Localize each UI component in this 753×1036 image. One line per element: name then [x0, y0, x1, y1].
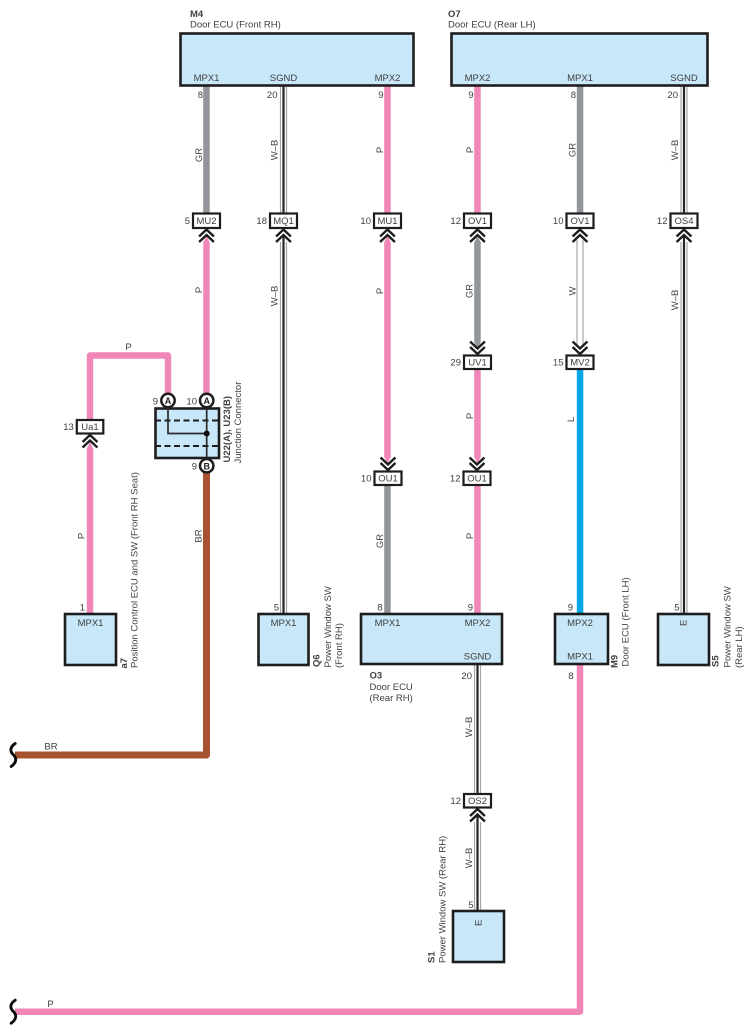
svg-text:W–B: W–B [670, 140, 681, 161]
svg-text:9: 9 [153, 396, 158, 407]
connector OV1 pin 10 [553, 214, 594, 229]
svg-text:O3: O3 [370, 671, 383, 682]
connector OU1 pin 12 [450, 472, 491, 486]
svg-text:P: P [194, 287, 205, 293]
svg-text:W–B: W–B [270, 140, 281, 161]
component Q6 Power Window SW (Front RH) [259, 614, 309, 665]
svg-text:13: 13 [63, 422, 74, 433]
wire-break squiggle (BR, left edge) [11, 744, 16, 767]
connector OV1 pin 12 [450, 214, 491, 229]
svg-text:(Rear LH): (Rear LH) [734, 626, 745, 668]
component S5 Power Window SW (Rear LH) [658, 614, 709, 665]
svg-text:9: 9 [192, 462, 197, 473]
svg-text:(Rear RH): (Rear RH) [370, 693, 413, 704]
svg-text:9: 9 [468, 90, 473, 101]
svg-text:UV1: UV1 [468, 358, 486, 369]
wire W-B: O3 SGND pin 20 to connector OS2 [474, 665, 481, 796]
svg-text:E: E [474, 920, 485, 926]
junction connector pin 9(A) terminal [161, 394, 174, 407]
svg-text:O7: O7 [448, 9, 461, 20]
component M9 Door ECU (Front LH) [555, 614, 608, 664]
svg-text:5: 5 [274, 603, 279, 614]
svg-text:P: P [375, 288, 386, 294]
svg-text:MQ1: MQ1 [273, 216, 294, 227]
svg-text:B: B [203, 461, 210, 471]
svg-text:W–B: W–B [670, 290, 681, 311]
component a7 Position Control ECU and SW (Front RH Seat) [65, 614, 116, 665]
svg-text:8: 8 [198, 90, 203, 101]
O3 designation and name [370, 671, 413, 705]
svg-text:MPX1: MPX1 [78, 618, 104, 629]
svg-text:Junction Connector: Junction Connector [233, 382, 244, 464]
wire P: M4 MPX2 pin 9 to connector MU1 [384, 86, 391, 215]
svg-text:P: P [465, 533, 476, 539]
component O3 Door ECU (Rear RH) [361, 614, 502, 664]
connector OS2 pin 12 [450, 794, 491, 808]
wire GR: OV1 to connector UV1 pin 29 [474, 236, 481, 349]
svg-text:9: 9 [378, 90, 383, 101]
svg-text:1: 1 [80, 603, 85, 614]
connector MU1 pin 10 [360, 214, 401, 229]
svg-text:GR: GR [465, 284, 476, 298]
svg-text:12: 12 [450, 796, 461, 807]
svg-text:Power Window SW: Power Window SW [323, 586, 334, 667]
svg-text:MPX2: MPX2 [567, 618, 593, 629]
svg-text:8: 8 [568, 671, 573, 682]
wire P: O7 MPX2 pin 9 to connector OV1 [474, 86, 481, 215]
svg-text:GR: GR [194, 148, 205, 162]
svg-text:10: 10 [186, 396, 197, 407]
connector OS4 pin 12 [657, 214, 698, 229]
svg-text:U22(A), U23(B): U22(A), U23(B) [222, 396, 233, 463]
svg-text:12: 12 [450, 216, 461, 227]
svg-text:8: 8 [377, 603, 382, 614]
svg-text:OU1: OU1 [467, 474, 487, 485]
svg-text:OV1: OV1 [468, 216, 487, 227]
wire P: MU1 to connector OU1 pin 10 [384, 236, 391, 464]
wire W-B: OS4 to S5 pin 5 [680, 236, 687, 615]
svg-text:Q6: Q6 [312, 654, 323, 667]
svg-text:Door ECU (Front LH): Door ECU (Front LH) [621, 577, 632, 666]
svg-text:Door ECU (Rear LH): Door ECU (Rear LH) [448, 20, 536, 31]
svg-text:Ua1: Ua1 [81, 422, 98, 433]
svg-text:A: A [165, 396, 172, 406]
svg-text:P: P [47, 999, 53, 1010]
svg-text:W–B: W–B [270, 286, 281, 307]
svg-text:MV2: MV2 [570, 358, 590, 369]
connector OU1 pin 10 [361, 472, 402, 486]
svg-text:Door ECU: Door ECU [370, 682, 413, 693]
wire P: M9 MPX1 pin 8 down and left to page edge [15, 664, 580, 1012]
wire W-B: OS2 to S1 pin 5 [474, 816, 481, 912]
svg-text:M4: M4 [190, 9, 204, 20]
svg-text:MPX1: MPX1 [375, 618, 401, 629]
svg-text:MPX1: MPX1 [194, 73, 220, 84]
svg-text:18: 18 [256, 216, 267, 227]
svg-text:20: 20 [667, 90, 678, 101]
svg-text:M9: M9 [610, 655, 621, 668]
svg-text:S5: S5 [711, 655, 722, 667]
junction connector pin 9(B) terminal [200, 459, 213, 472]
svg-text:29: 29 [450, 358, 461, 369]
svg-text:P: P [465, 413, 476, 419]
wire P: MU2 to junction connector pin 10(A) [203, 236, 210, 395]
svg-text:MPX1: MPX1 [567, 73, 593, 84]
svg-text:BR: BR [44, 742, 57, 753]
wire GR: O7 MPX1 pin 8 to connector OV1 [577, 86, 584, 215]
svg-text:5: 5 [674, 603, 679, 614]
svg-text:Door ECU (Front RH): Door ECU (Front RH) [190, 20, 281, 31]
connector MQ1 pin 18 [256, 214, 297, 229]
svg-text:P: P [375, 147, 386, 153]
svg-text:MPX2: MPX2 [465, 618, 491, 629]
wire P: OU1 to O3 MPX2 pin 9 [474, 486, 481, 615]
svg-text:SGND: SGND [270, 73, 298, 84]
svg-text:L: L [566, 417, 577, 422]
ECU O7 Door ECU (Rear LH) [448, 9, 708, 86]
wire W-B: O7 SGND pin 20 to connector OS4 [680, 86, 687, 215]
svg-text:5: 5 [185, 216, 190, 227]
svg-text:Power Window SW (Rear RH): Power Window SW (Rear RH) [438, 836, 449, 963]
connector MU2 pin 5 [185, 214, 220, 229]
svg-text:10: 10 [553, 216, 564, 227]
svg-text:GR: GR [568, 143, 579, 157]
svg-text:10: 10 [361, 474, 372, 485]
wire P: Ua1 to a7 MPX1 pin 1 [87, 442, 94, 614]
wire P: UV1 to connector OU1 pin 12 [474, 369, 481, 464]
svg-text:OU1: OU1 [378, 474, 398, 485]
svg-text:P: P [125, 342, 131, 353]
svg-text:W–B: W–B [464, 848, 475, 869]
svg-text:20: 20 [461, 671, 472, 682]
component S1 Power Window SW (Rear RH) [453, 911, 504, 962]
junction connector dashed bus lines [155, 421, 219, 447]
wire BR: junction pin 9(B) down and left to page edge [15, 470, 207, 755]
svg-text:Position Control ECU and SW (F: Position Control ECU and SW (Front RH Se… [130, 472, 141, 668]
svg-text:15: 15 [553, 358, 564, 369]
wire W-B: M4 SGND pin 20 to connector MQ1 [280, 86, 287, 215]
svg-text:MPX1: MPX1 [567, 652, 593, 663]
wire L: MV2 to M9 MPX2 pin 9 [577, 369, 584, 614]
svg-text:E: E [679, 620, 690, 626]
svg-text:P: P [77, 533, 88, 539]
svg-text:5: 5 [468, 900, 473, 911]
junction connector internal link wire [168, 406, 207, 461]
svg-text:A: A [203, 396, 210, 406]
ECU M4 Door ECU (Front RH) [181, 9, 414, 86]
svg-text:(Front RH): (Front RH) [334, 623, 345, 668]
svg-text:Power Window SW: Power Window SW [723, 586, 734, 667]
wire GR: OU1 to O3 MPX1 pin 8 [384, 486, 391, 615]
svg-text:MPX1: MPX1 [271, 618, 297, 629]
svg-text:20: 20 [267, 90, 278, 101]
junction node (internal joint dot) [204, 431, 210, 437]
svg-text:12: 12 [657, 216, 668, 227]
svg-text:MPX2: MPX2 [465, 73, 491, 84]
svg-text:OS2: OS2 [468, 796, 487, 807]
svg-text:8: 8 [571, 90, 576, 101]
svg-text:a7: a7 [119, 658, 130, 669]
svg-text:MU2: MU2 [196, 216, 216, 227]
connector UV1 pin 29 [450, 356, 491, 370]
svg-text:SGND: SGND [670, 73, 698, 84]
svg-text:9: 9 [568, 603, 573, 614]
svg-text:MPX2: MPX2 [375, 73, 401, 84]
wire-break squiggle (P, left edge) [11, 1000, 16, 1023]
connector MV2 pin 15 [553, 356, 594, 370]
svg-text:GR: GR [375, 534, 386, 548]
svg-text:S1: S1 [427, 951, 438, 963]
wire W-B: MQ1 to Q6 MPX1 pin 5 [280, 236, 287, 615]
wire W: OV1 to connector MV2 pin 15 [576, 240, 583, 347]
svg-text:MU1: MU1 [377, 216, 397, 227]
svg-text:SGND: SGND [464, 652, 492, 663]
junction connector pin 10(A) terminal [200, 394, 213, 407]
svg-text:OV1: OV1 [570, 216, 589, 227]
svg-text:P: P [465, 147, 476, 153]
svg-text:BR: BR [194, 529, 205, 542]
svg-text:9: 9 [468, 603, 473, 614]
junction connector U22(A), U23(B) body [156, 409, 220, 459]
connector Ua1 pin 13 [63, 420, 103, 434]
wire GR: M4 MPX1 pin 8 to connector MU2 [203, 86, 210, 215]
svg-text:OS4: OS4 [674, 216, 693, 227]
svg-text:W: W [567, 286, 578, 295]
svg-text:10: 10 [360, 216, 371, 227]
svg-text:12: 12 [450, 474, 461, 485]
wire P: junction pin 9(A) elbow to connector Ua1 [90, 356, 168, 421]
svg-text:W–B: W–B [464, 717, 475, 738]
